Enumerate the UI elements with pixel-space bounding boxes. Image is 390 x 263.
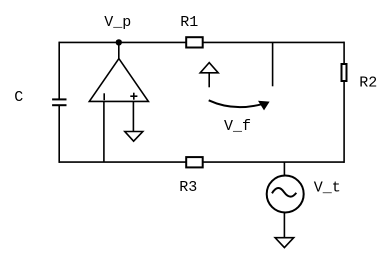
svg-text:V_t: V_t xyxy=(314,180,341,197)
svg-text:R3: R3 xyxy=(179,179,197,196)
svg-text:C: C xyxy=(14,89,23,106)
svg-text:V_f: V_f xyxy=(224,118,251,135)
svg-text:V_p: V_p xyxy=(104,14,131,31)
svg-text:R1: R1 xyxy=(180,14,198,31)
svg-text:R2: R2 xyxy=(359,74,377,91)
